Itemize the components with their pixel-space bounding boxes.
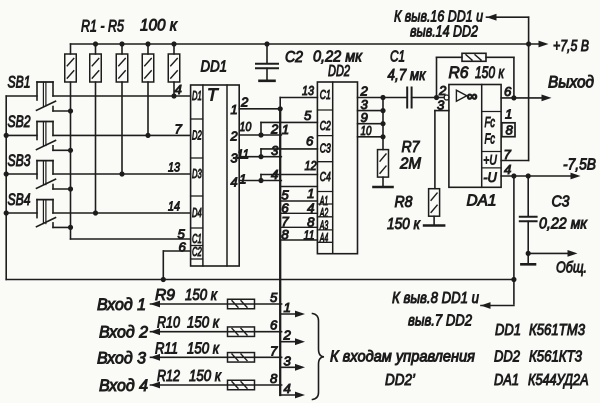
svg-text:4,7 мк: 4,7 мк (388, 67, 427, 84)
svg-text:11: 11 (304, 227, 315, 242)
svg-text:13: 13 (302, 83, 315, 98)
svg-text:1: 1 (284, 300, 291, 315)
pushbutton SB1 (37, 81, 53, 83)
svg-text:10: 10 (239, 119, 252, 134)
svg-text:D3: D3 (192, 166, 202, 181)
svg-text:5: 5 (270, 290, 278, 305)
svg-text:11: 11 (237, 147, 249, 162)
svg-text:Вход 1: Вход 1 (97, 296, 146, 314)
ground: C2 (260, 80, 275, 83)
resistor R11 150k (228, 353, 255, 363)
svg-text:150 к: 150 к (189, 368, 222, 385)
svg-text:Вход 3: Вход 3 (97, 349, 147, 367)
svg-text:R1 - R5: R1 - R5 (81, 17, 124, 36)
wire: C2 polarity pin to bottom rail (163, 250, 190, 252)
capacitor C1 4,7uF (383, 97, 407, 99)
wire: bottom common rail (6, 279, 514, 281)
svg-text:К входам управления: К входам управления (330, 349, 475, 366)
svg-text:+7,5 В: +7,5 В (553, 38, 589, 55)
svg-text:2: 2 (283, 328, 292, 343)
svg-text:SB2: SB2 (8, 112, 31, 131)
svg-text:150 к: 150 к (187, 340, 220, 357)
wire: SB3 left terminal from rail (6, 173, 37, 175)
wire: R3 drop to D3 (121, 82, 123, 174)
wire: SB3 D3 line to DD1 (53, 173, 191, 175)
svg-text:13: 13 (168, 160, 181, 175)
resistor R12 150k (228, 380, 255, 390)
svg-text:R8: R8 (395, 194, 413, 211)
svg-text:7: 7 (270, 343, 278, 358)
svg-text:4: 4 (175, 82, 182, 97)
svg-text:4: 4 (284, 381, 291, 396)
svg-text:Выход: Выход (548, 74, 594, 92)
wire: SB4 second contact to clock line (52, 223, 54, 228)
svg-text:D1: D1 (192, 88, 202, 103)
wire: bus to DD2' control arrow 3 (282, 366, 296, 368)
svg-text:DA1: DA1 (467, 192, 497, 209)
wire: SB4 left terminal from rail (6, 212, 37, 214)
svg-text:Fc: Fc (485, 115, 496, 131)
wire: DD1 out4 pin1 step to DD2 C4 (239, 180, 281, 182)
amplifier symbol triangle-infinity (456, 90, 466, 101)
svg-text:C2: C2 (320, 118, 332, 133)
pin 8 box (DA1 FC) (502, 123, 515, 137)
svg-text:A4: A4 (319, 231, 328, 245)
svg-text:∞: ∞ (467, 88, 478, 105)
svg-text:10: 10 (361, 123, 372, 138)
wire: Obshch (common) output (528, 252, 568, 254)
svg-text:1: 1 (505, 107, 512, 122)
node: +7,5 rail junction (526, 41, 531, 46)
svg-text:R9: R9 (155, 287, 175, 304)
resistor R9 150k (228, 299, 255, 309)
wire: SB2 D2 line to DD1 (53, 134, 191, 136)
resistor R3 100k (116, 54, 128, 82)
wire: R2 drop to D4 (95, 82, 97, 213)
svg-text:D2: D2 (192, 128, 202, 143)
resistor R1 100k (65, 54, 77, 82)
resistor R2 100k (90, 54, 102, 82)
wire: -U pin 4 to -7,5 (501, 175, 571, 177)
inversion circle pin 2 (444, 95, 449, 100)
svg-text:6: 6 (179, 240, 187, 255)
svg-text:150 к: 150 к (187, 315, 220, 332)
wire: +7,5 V supply rail (71, 43, 540, 45)
svg-text:5: 5 (304, 108, 312, 123)
op-amp DA1 K544UD2A (449, 85, 501, 188)
svg-text:D4: D4 (192, 205, 202, 220)
svg-text:C2: C2 (192, 244, 202, 259)
wire: input Вход 3 line (151, 356, 282, 358)
resistor R8 150k (429, 189, 440, 217)
svg-text:150 к: 150 к (185, 287, 218, 304)
svg-text:3: 3 (284, 353, 292, 368)
svg-text:3: 3 (271, 143, 279, 158)
svg-text:14: 14 (168, 199, 180, 214)
svg-text:4: 4 (231, 174, 238, 189)
wire: DD2 outputs 2,3,9,10 joined (358, 97, 384, 99)
svg-text:Fc: Fc (485, 132, 496, 148)
svg-text:7: 7 (175, 122, 183, 137)
svg-text:2М: 2М (399, 156, 422, 173)
svg-text:Вход 2: Вход 2 (99, 324, 148, 342)
svg-text:C3: C3 (320, 140, 332, 155)
pushbutton SB2 (37, 121, 53, 123)
svg-text:-U: -U (483, 170, 497, 185)
wire: left common rail of buttons (5, 96, 7, 280)
ground: R8 (424, 224, 444, 227)
svg-text:C4: C4 (320, 169, 331, 184)
svg-text:R7: R7 (402, 139, 421, 156)
svg-text:150 к: 150 к (387, 216, 421, 233)
svg-text:DD1: DD1 (495, 322, 521, 339)
ground: R7 (374, 186, 393, 189)
svg-text:8: 8 (281, 227, 289, 242)
svg-text:+U: +U (483, 153, 497, 168)
pushbutton SB4 (37, 199, 53, 201)
wire: SB1 left terminal from rail (6, 95, 37, 97)
svg-text:Вход 4: Вход 4 (99, 377, 148, 395)
wire: bus to DD2' control arrow 4 (282, 394, 296, 396)
svg-text:1: 1 (282, 122, 289, 137)
wire: DD1 out2 pin10 step to DD2 C2 (239, 134, 281, 136)
svg-text:SB3: SB3 (8, 151, 31, 170)
wire: input Вход 1 line (151, 303, 282, 305)
wire: bus to DD2' control arrow 2 (282, 341, 296, 343)
svg-text:6: 6 (504, 84, 512, 99)
svg-text:SB1: SB1 (8, 73, 31, 92)
svg-text:DD2: DD2 (494, 349, 520, 366)
wire: DD1 out3 pin11 step to DD2 C3 (239, 156, 281, 158)
resistor R6 150k feedback (437, 56, 463, 58)
svg-text:R11: R11 (155, 340, 178, 357)
wire: SB1 D1 line to DD1 (53, 95, 191, 97)
brace for DD2' control inputs (313, 314, 325, 400)
pushbutton SB3 (37, 160, 53, 162)
wire: SB1 second contact to clock line (52, 107, 54, 112)
wire: R5 drop to D1 (173, 82, 175, 96)
resistor R10 150k (228, 327, 255, 337)
svg-text:4: 4 (307, 201, 314, 216)
wire: R1 drop to clock line C1 (70, 82, 72, 239)
svg-text:8: 8 (270, 371, 278, 386)
svg-text:2: 2 (270, 122, 279, 137)
svg-text:C1: C1 (320, 87, 331, 102)
resistor R4 100k (142, 54, 154, 82)
svg-text:0,22 мк: 0,22 мк (539, 216, 588, 233)
svg-text:R10: R10 (157, 315, 180, 332)
svg-text:1: 1 (307, 186, 314, 201)
svg-text:R12: R12 (157, 368, 180, 385)
svg-text:4: 4 (504, 162, 511, 177)
svg-text:К561ТМ3: К561ТМ3 (529, 322, 585, 339)
wire: SB2 second contact to clock line (52, 146, 54, 151)
svg-text:12: 12 (305, 158, 318, 173)
svg-text:8: 8 (506, 123, 514, 138)
wire: DA1 pin3 to R8 (435, 110, 449, 112)
svg-text:4: 4 (271, 167, 278, 182)
svg-text:1: 1 (239, 172, 246, 187)
svg-text:-7,5В: -7,5В (563, 157, 596, 174)
svg-text:6: 6 (306, 134, 314, 149)
svg-text:выв.7 DD2: выв.7 DD2 (408, 313, 472, 330)
wire: vertical to bottom rail and K vyv.8 (513, 176, 515, 304)
svg-text:6: 6 (270, 318, 278, 333)
svg-text:100 к: 100 к (140, 16, 178, 35)
svg-text:К выв.8 DD1 и: К выв.8 DD1 и (392, 290, 479, 307)
svg-text:выв.14 DD2: выв.14 DD2 (410, 24, 478, 41)
wire: DD1 out1 pin2 to DD2 C1 pin13 (239, 108, 280, 110)
wire: SB2 left terminal from rail (6, 134, 37, 136)
wire: bus to DD2' control arrow 1 (282, 313, 296, 315)
IC DD2 K561KT3 quad switch (317, 82, 357, 254)
svg-text:DA1: DA1 (494, 372, 519, 389)
svg-text:C2: C2 (285, 49, 303, 66)
svg-text:К561КТ3: К561КТ3 (529, 349, 582, 366)
wire: input Вход 2 line (151, 331, 282, 333)
wire: SB3 second contact to clock line (52, 185, 54, 190)
wire: bus-to-DD2 A-input ladder (281, 186, 317, 188)
svg-text:Общ.: Общ. (556, 260, 587, 277)
svg-text:C3: C3 (552, 194, 570, 211)
svg-text:К544УД2А: К544УД2А (528, 372, 589, 389)
svg-text:DD1: DD1 (201, 59, 228, 76)
svg-text:2: 2 (438, 83, 447, 98)
IC DD1 K561TM3 quad latch (191, 85, 240, 266)
ground bar below C3 (521, 263, 535, 266)
wire: to pin 16 DD1 / pin 14 DD2 (top left arrow) (487, 16, 529, 18)
svg-text:150 к: 150 к (475, 64, 505, 82)
svg-text:DD2’: DD2’ (385, 372, 415, 389)
group bus vertical line (279, 109, 281, 395)
capacitor C2 0,22uF (266, 44, 268, 63)
svg-text:C1: C1 (390, 49, 405, 66)
svg-text:DD2: DD2 (328, 63, 350, 80)
svg-text:SB4: SB4 (8, 190, 31, 209)
resistor R7 2M (378, 150, 389, 178)
svg-text:1: 1 (231, 102, 238, 117)
wire: DA1 output pin 6 (501, 97, 542, 99)
resistor R5 100k (168, 54, 180, 82)
svg-text:R6: R6 (449, 64, 470, 82)
wire: SB4 D4 line to DD1 (53, 212, 191, 214)
wire: R4 drop to D2 (147, 82, 149, 135)
svg-text:2: 2 (240, 95, 249, 110)
svg-text:T: T (207, 85, 219, 105)
wire: +U pin 7 to +7,5 (501, 160, 528, 162)
svg-text:2: 2 (230, 129, 238, 144)
svg-text:7: 7 (504, 147, 512, 162)
capacitor C3 0,22uF (527, 176, 529, 216)
wire: input Вход 4 line (151, 384, 282, 386)
